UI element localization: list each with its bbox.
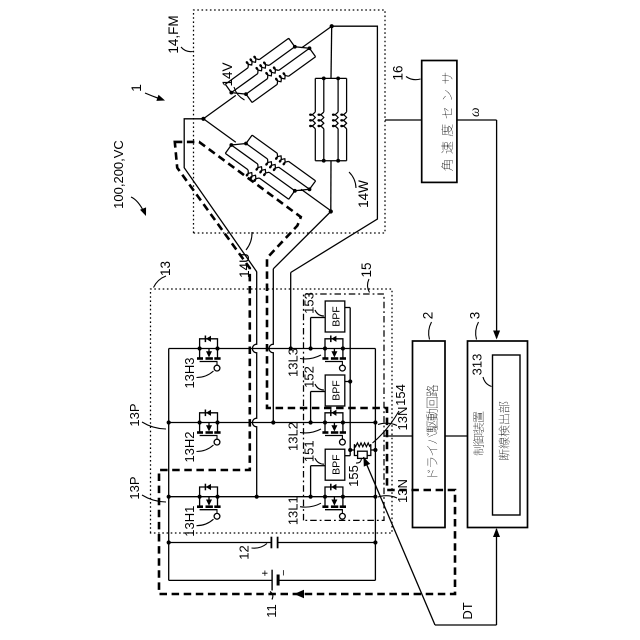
svg-text:13: 13: [158, 261, 173, 276]
svg-text:14V: 14V: [220, 62, 235, 86]
svg-text:BPF: BPF: [331, 454, 343, 474]
svg-text:3: 3: [468, 312, 483, 320]
svg-text:+: +: [260, 570, 272, 576]
svg-text:13H2: 13H2: [182, 431, 197, 462]
svg-text:14W: 14W: [356, 180, 371, 208]
svg-text:13H1: 13H1: [182, 506, 197, 537]
svg-text:153: 153: [302, 292, 317, 314]
svg-text:100,200,VC: 100,200,VC: [111, 140, 126, 209]
svg-text:BPF: BPF: [331, 380, 343, 400]
svg-text:13P: 13P: [127, 476, 142, 499]
svg-text:154: 154: [393, 384, 408, 406]
svg-text:13N: 13N: [395, 407, 410, 431]
svg-text:151: 151: [302, 440, 317, 462]
svg-text:13N: 13N: [395, 479, 410, 503]
svg-text:1: 1: [128, 84, 144, 92]
svg-text:BPF: BPF: [331, 306, 343, 326]
svg-text:12: 12: [237, 545, 252, 559]
svg-text:15: 15: [359, 262, 374, 277]
svg-text:14U: 14U: [237, 253, 252, 278]
svg-text:2: 2: [421, 312, 436, 320]
svg-text:11: 11: [264, 604, 279, 618]
svg-text:14,FM: 14,FM: [166, 15, 181, 53]
svg-text:13L3: 13L3: [286, 348, 301, 377]
svg-text:−: −: [278, 570, 290, 576]
svg-text:13P: 13P: [127, 403, 142, 426]
svg-text:13L1: 13L1: [286, 496, 301, 525]
svg-text:13L2: 13L2: [286, 422, 301, 451]
svg-text:155: 155: [346, 465, 361, 487]
svg-text:16: 16: [391, 65, 406, 80]
svg-text:13H3: 13H3: [182, 357, 197, 388]
svg-text:DT: DT: [460, 602, 475, 619]
svg-text:152: 152: [302, 366, 317, 388]
svg-text:ω: ω: [467, 107, 482, 117]
svg-text:313: 313: [470, 354, 485, 376]
